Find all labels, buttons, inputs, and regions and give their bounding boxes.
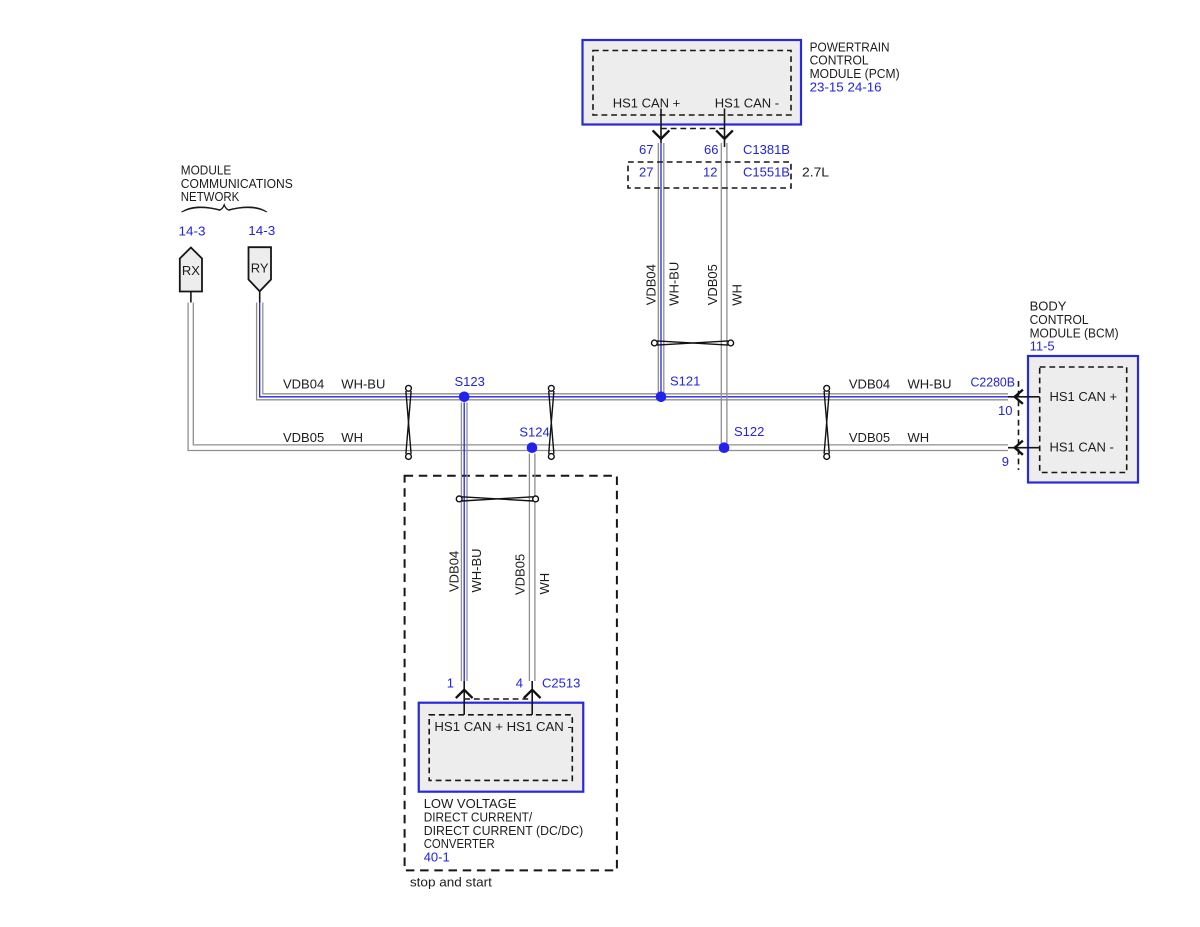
svg-text:40-1: 40-1 (424, 850, 450, 865)
svg-text:23-15 24-16: 23-15 24-16 (810, 79, 882, 94)
svg-text:C2280B: C2280B (971, 375, 1016, 390)
svg-text:stop and start: stop and start (410, 874, 492, 889)
svg-text:14-3: 14-3 (248, 223, 275, 238)
svg-text:VDB04: VDB04 (644, 264, 659, 305)
svg-text:S123: S123 (455, 374, 485, 389)
svg-text:VDB05: VDB05 (512, 554, 527, 595)
svg-text:HS1 CAN +: HS1 CAN + (1050, 389, 1118, 404)
svg-text:VDB04: VDB04 (849, 376, 890, 391)
svg-text:C1551B: C1551B (743, 165, 790, 180)
svg-text:NETWORK: NETWORK (181, 189, 240, 204)
svg-text:WH: WH (908, 430, 930, 445)
svg-text:2.7L: 2.7L (802, 165, 829, 180)
svg-text:VDB05: VDB05 (705, 264, 720, 305)
svg-text:4: 4 (516, 676, 523, 691)
svg-text:HS1 CAN -: HS1 CAN - (1050, 440, 1114, 455)
svg-text:HS1 CAN +: HS1 CAN + (613, 96, 681, 111)
svg-text:WH-BU: WH-BU (341, 376, 385, 391)
svg-text:WH-BU: WH-BU (667, 262, 682, 306)
svg-text:VDB05: VDB05 (849, 430, 890, 445)
svg-text:10: 10 (998, 403, 1012, 418)
svg-text:C1381B: C1381B (743, 142, 790, 157)
svg-text:11-5: 11-5 (1030, 339, 1055, 354)
svg-text:VDB05: VDB05 (283, 430, 324, 445)
svg-text:12: 12 (703, 165, 717, 180)
svg-text:9: 9 (1002, 454, 1009, 469)
svg-text:VDB04: VDB04 (283, 376, 324, 391)
svg-text:27: 27 (639, 165, 653, 180)
svg-text:C2513: C2513 (542, 676, 580, 691)
svg-text:67: 67 (639, 142, 653, 157)
svg-text:HS1 CAN + HS1 CAN -: HS1 CAN + HS1 CAN - (434, 719, 572, 734)
svg-text:1: 1 (447, 676, 454, 691)
svg-text:S124: S124 (519, 425, 549, 440)
svg-text:RY: RY (251, 261, 269, 276)
svg-text:66: 66 (704, 142, 718, 157)
svg-text:S122: S122 (734, 424, 764, 439)
svg-text:WH-BU: WH-BU (469, 548, 484, 592)
svg-text:WH: WH (729, 284, 744, 306)
svg-text:HS1 CAN -: HS1 CAN - (715, 96, 779, 111)
svg-text:S121: S121 (670, 374, 700, 389)
svg-text:WH-BU: WH-BU (908, 376, 952, 391)
svg-text:14-3: 14-3 (179, 224, 206, 239)
svg-text:RX: RX (182, 263, 200, 278)
svg-text:WH: WH (537, 573, 552, 595)
svg-text:WH: WH (341, 430, 363, 445)
svg-text:VDB04: VDB04 (447, 551, 462, 592)
